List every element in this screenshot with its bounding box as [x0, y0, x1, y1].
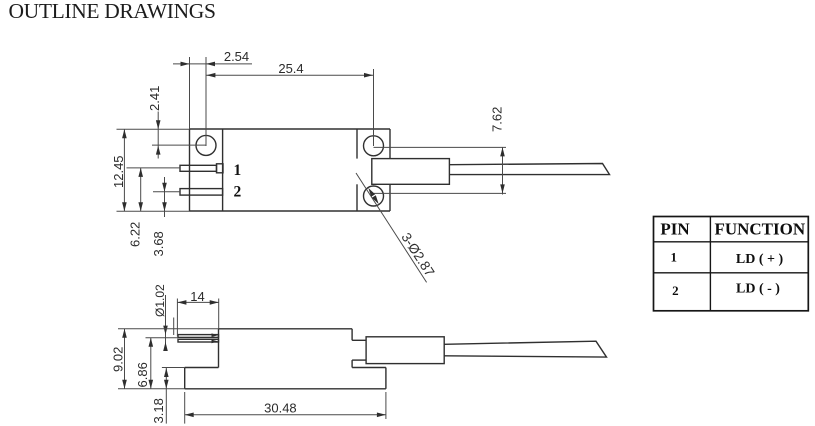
svg-text:Ø1.02: Ø1.02: [153, 284, 167, 317]
svg-text:30.48: 30.48: [264, 401, 297, 416]
svg-text:14: 14: [190, 289, 204, 304]
svg-text:PIN: PIN: [660, 220, 690, 239]
svg-text:1: 1: [671, 250, 678, 265]
svg-text:OUTLINE DRAWINGS: OUTLINE DRAWINGS: [9, 0, 216, 23]
svg-text:LD ( - ): LD ( - ): [736, 282, 780, 297]
svg-text:12.45: 12.45: [111, 155, 126, 188]
svg-text:FUNCTION: FUNCTION: [714, 220, 805, 239]
svg-text:2: 2: [234, 184, 242, 201]
svg-text:2.54: 2.54: [224, 49, 249, 64]
svg-text:3.68: 3.68: [151, 231, 166, 256]
svg-text:2: 2: [672, 283, 679, 298]
svg-text:9.02: 9.02: [111, 347, 126, 372]
svg-text:7.62: 7.62: [489, 107, 504, 132]
svg-text:LD ( + ): LD ( + ): [736, 252, 784, 267]
svg-text:6.22: 6.22: [127, 222, 142, 247]
svg-text:2.41: 2.41: [147, 86, 162, 111]
svg-text:1: 1: [234, 162, 242, 179]
svg-text:6.86: 6.86: [135, 362, 150, 387]
svg-text:25.4: 25.4: [278, 61, 303, 76]
svg-text:3.18: 3.18: [151, 398, 166, 423]
